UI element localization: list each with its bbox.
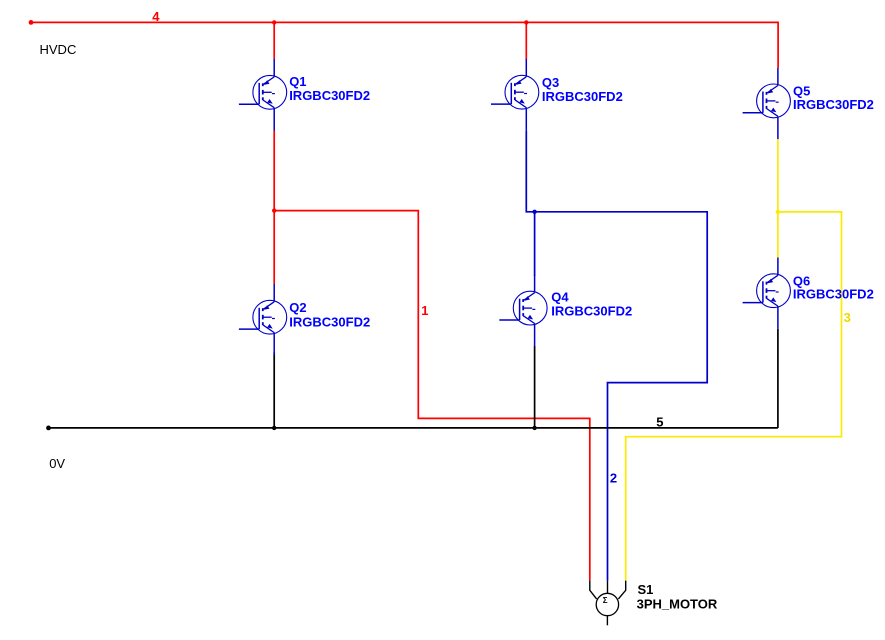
wire net 1 tap to motor [274,211,590,581]
net label HVDC [40,42,77,57]
label Q1 [289,74,306,89]
svg-text:0V: 0V [49,456,65,471]
value label Q1 IRGBC30FD2 [289,88,370,103]
svg-text:IRGBC30FD2: IRGBC30FD2 [793,97,874,112]
label Q5 [793,84,810,99]
motor S1 [590,581,626,626]
label Q4 [551,289,569,304]
svg-text:IRGBC30FD2: IRGBC30FD2 [289,314,370,329]
net label 4 [152,9,160,24]
svg-text:IRGBC30FD2: IRGBC30FD2 [542,89,623,104]
wire 0V rail net 5 [49,427,778,429]
wire Q4 emitter to 0V [534,346,536,428]
svg-text:IRGBC30FD2: IRGBC30FD2 [551,303,632,318]
transistor Q5 [743,68,791,139]
wire Q2 emitter to 0V [273,353,275,428]
svg-text:3: 3 [844,310,851,325]
net label 2 [610,470,617,485]
svg-text:4: 4 [152,9,160,24]
transistor Q6 [743,258,791,329]
wire net 2 Q3 emitter to motor [526,131,707,581]
svg-text:IRGBC30FD2: IRGBC30FD2 [793,287,874,302]
wire Q1 collector drop [273,22,275,59]
wire net 1 vertical Q1-Q2 [273,130,275,284]
junction net 1 [272,208,276,212]
transistor Q4 [499,275,547,346]
net label 1 [421,303,428,318]
transistor Q1 [239,59,287,130]
wire Q3 collector drop [525,22,527,59]
junction net 2 [532,210,536,214]
label Q2 [289,300,306,315]
wire HVDC rail net 4 [31,22,778,67]
svg-text:5: 5 [656,414,663,429]
value label Q5 IRGBC30FD2 [793,97,874,112]
junction 0V-Q4 [532,426,536,430]
motor sigma glyph [603,596,608,605]
label Q6 [793,273,810,288]
svg-text:Q4: Q4 [551,289,569,304]
value label 3PH_MOTOR [637,596,718,611]
net label 3 [844,310,851,325]
junction rail-Q3 [524,20,528,24]
svg-text:Q2: Q2 [289,300,306,315]
value label Q2 IRGBC30FD2 [289,314,370,329]
value label Q6 IRGBC30FD2 [793,287,874,302]
svg-text:2: 2 [610,470,617,485]
wire net 2 branch to Q4 [534,212,536,276]
transistor Q2 [239,284,287,355]
wire net 3 tap to motor [626,212,842,581]
svg-text:S1: S1 [638,582,654,597]
node HVDC left terminal [29,20,34,25]
value label Q4 IRGBC30FD2 [551,303,632,318]
junction 0V-Q2 [272,426,276,430]
junction rail-Q1 [272,20,276,24]
svg-text:Q1: Q1 [289,74,306,89]
value label Q3 IRGBC30FD2 [542,89,623,104]
svg-text:HVDC: HVDC [40,42,77,57]
junction net 3 [776,210,780,214]
svg-text:3PH_MOTOR: 3PH_MOTOR [637,596,718,611]
wire net 3 Q5 emitter to Q6 [777,139,779,257]
svg-text:1: 1 [421,303,428,318]
svg-text:IRGBC30FD2: IRGBC30FD2 [289,88,370,103]
label S1 [638,582,654,597]
svg-text:Σ: Σ [603,596,608,605]
node 0V left terminal [46,426,51,431]
svg-text:Q3: Q3 [542,75,559,90]
wire Q6 emitter to 0V [777,329,779,428]
label Q3 [542,75,559,90]
net label 0V [49,456,65,471]
transistor Q3 [491,59,539,130]
net label 5 [656,414,663,429]
